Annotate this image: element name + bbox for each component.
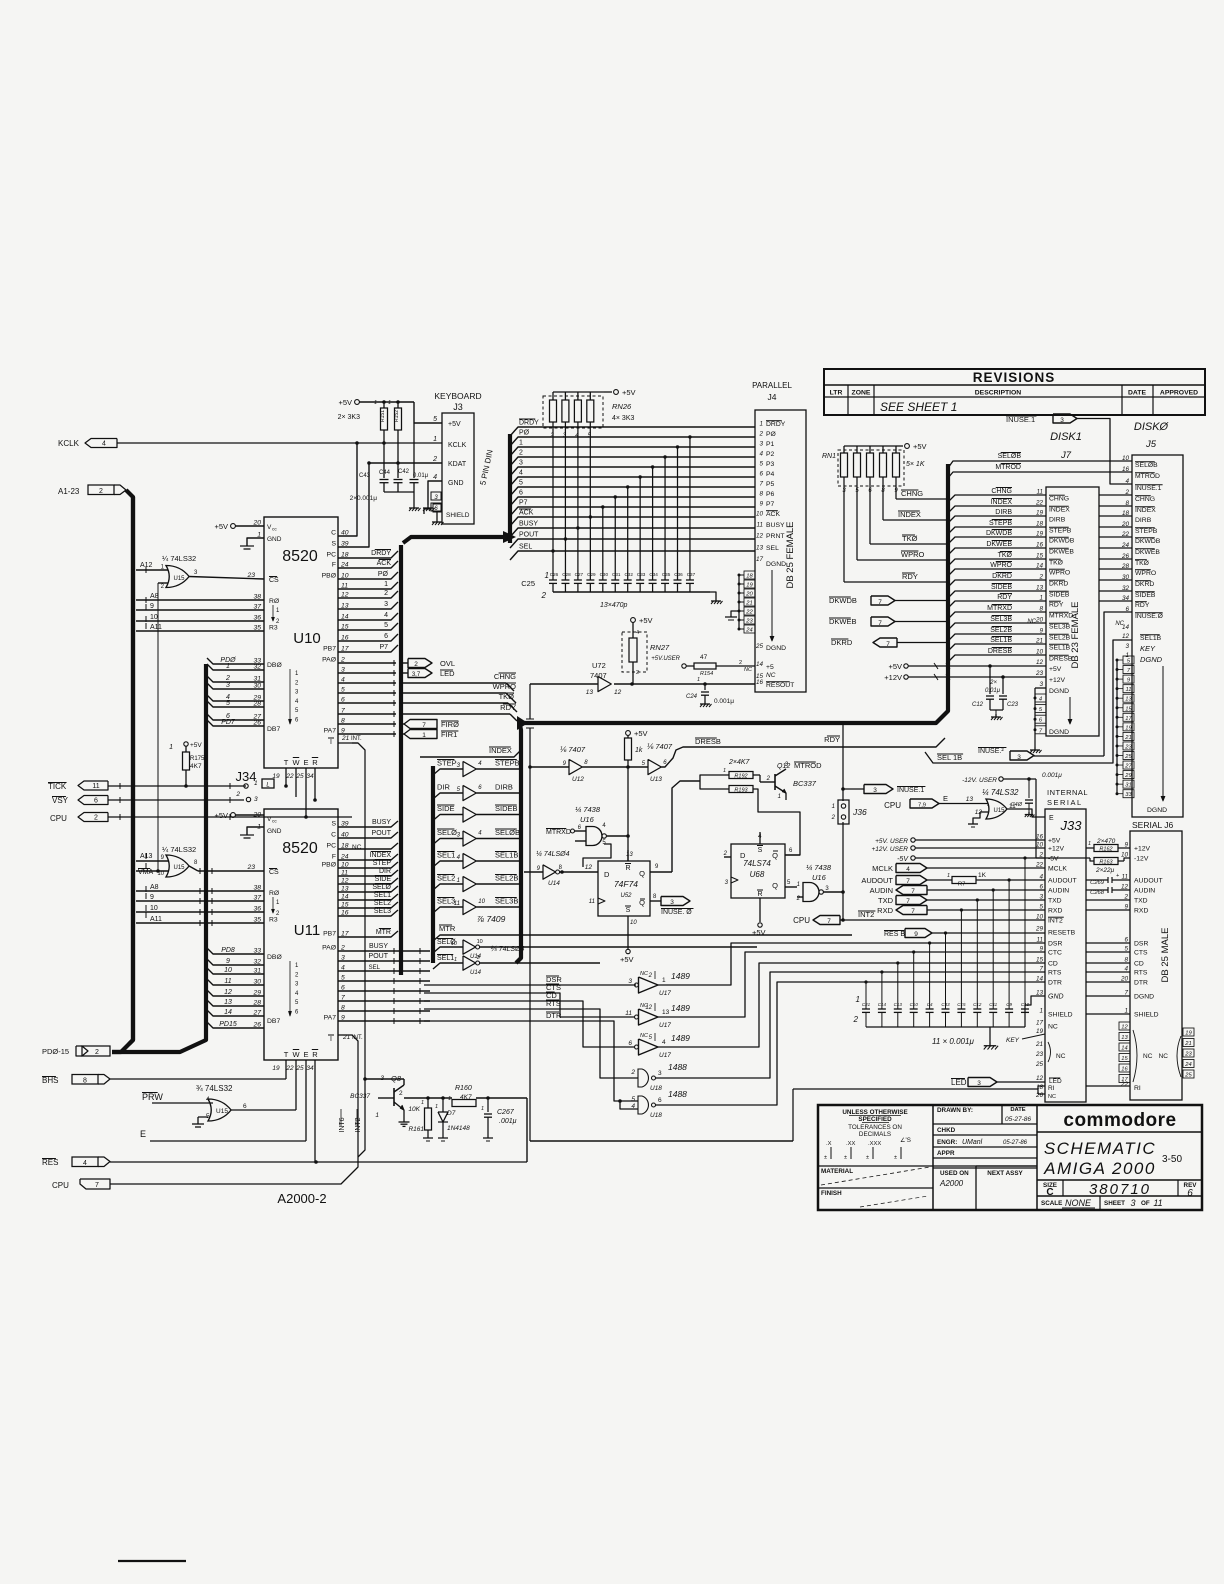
svg-text:STEP: STEP	[373, 860, 392, 867]
svg-text:10: 10	[157, 871, 164, 877]
svg-text:1k: 1k	[635, 747, 643, 754]
svg-text:A11: A11	[150, 624, 162, 631]
svg-text:Q12: Q12	[777, 763, 790, 770]
svg-text:+5V: +5V	[1049, 666, 1062, 673]
svg-text:11: 11	[224, 978, 231, 985]
svg-text:OF: OF	[1141, 1200, 1150, 1207]
svg-text:AUDIN: AUDIN	[1048, 888, 1069, 895]
svg-text:U72: U72	[592, 661, 606, 670]
node PD0-15 tag	[42, 1046, 110, 1056]
svg-text:DKWDB: DKWDB	[1135, 538, 1161, 545]
svg-text:R3: R3	[269, 917, 278, 924]
svg-text:RTS: RTS	[1048, 970, 1062, 977]
svg-text:SIDEB: SIDEB	[991, 584, 1012, 591]
svg-text:1: 1	[856, 995, 860, 1004]
svg-text:1: 1	[545, 571, 549, 580]
bus thick buffer collector	[516, 725, 521, 963]
svg-text:3: 3	[254, 796, 258, 803]
node VSY tag	[52, 796, 108, 806]
svg-text:J33: J33	[1060, 818, 1083, 833]
svg-text:PRW: PRW	[142, 1092, 163, 1102]
svg-text:11: 11	[1153, 1198, 1162, 1208]
svg-text:22: 22	[1035, 500, 1044, 507]
svg-text:2: 2	[95, 1049, 99, 1056]
svg-text:10: 10	[478, 899, 485, 905]
gate U14 74LS04 inverter	[524, 851, 598, 887]
svg-text:NC: NC	[1027, 619, 1036, 625]
wire TK0 row	[400, 692, 517, 712]
node TICK tag	[48, 781, 108, 791]
svg-text:RN26: RN26	[612, 402, 632, 411]
svg-text:PA7: PA7	[324, 1015, 337, 1022]
capacitor bank C26-C37	[521, 435, 722, 609]
J7 disk rows from bus	[948, 488, 1046, 663]
svg-text:2×22μ: 2×22μ	[1095, 867, 1115, 874]
svg-text:RN1: RN1	[822, 453, 836, 460]
svg-text:15: 15	[1036, 957, 1044, 964]
flip-flop 74F74 U52	[589, 775, 705, 964]
svg-text:+5V: +5V	[214, 811, 228, 820]
svg-text:P7: P7	[379, 644, 388, 651]
svg-text:INUSE.²: INUSE.²	[978, 748, 1004, 755]
svg-text:FINISH: FINISH	[821, 1190, 842, 1197]
wire RES long	[110, 1161, 527, 1163]
svg-text:34: 34	[306, 773, 314, 780]
gate U15 74LS32 A12	[136, 554, 264, 871]
svg-text:R193: R193	[734, 788, 748, 794]
svg-text:J7: J7	[1060, 450, 1072, 461]
svg-text:INDEX: INDEX	[1049, 507, 1070, 514]
capacitors C43 C44 C42	[350, 423, 429, 511]
svg-text:5: 5	[631, 1096, 635, 1103]
svg-text:2: 2	[541, 591, 547, 600]
svg-text:C25: C25	[521, 579, 535, 588]
svg-text:6: 6	[759, 471, 763, 478]
svg-text:CTS: CTS	[1134, 950, 1148, 957]
svg-text:3-50: 3-50	[1162, 1154, 1182, 1165]
svg-text:VSY: VSY	[52, 796, 69, 805]
svg-text:6: 6	[1187, 1188, 1193, 1199]
svg-text:R152: R152	[394, 410, 400, 422]
wire INT6 vertical	[352, 743, 365, 1157]
svg-text:R7: R7	[958, 882, 965, 888]
svg-text:D7: D7	[447, 1110, 456, 1117]
svg-text:1: 1	[226, 663, 230, 670]
tick marks on address rows	[145, 567, 147, 918]
svg-text:10: 10	[224, 967, 232, 974]
svg-text:SEL1: SEL1	[374, 892, 391, 899]
svg-text:U18: U18	[650, 1112, 662, 1119]
svg-text:SELØB: SELØB	[1135, 462, 1158, 469]
J7 power pins	[884, 662, 1046, 682]
svg-text:SEE SHEET 1: SEE SHEET 1	[880, 400, 957, 414]
svg-text:7: 7	[878, 599, 882, 606]
node RXD tag	[877, 906, 1045, 916]
svg-text:U17: U17	[659, 1022, 671, 1029]
svg-text:TXD: TXD	[1134, 898, 1148, 905]
svg-text:R162: R162	[1099, 847, 1112, 853]
svg-text:TICK: TICK	[48, 782, 67, 791]
svg-text:OVL: OVL	[440, 659, 455, 668]
svg-text:INUSE.1: INUSE.1	[1135, 485, 1162, 492]
svg-text:C10: C10	[910, 1002, 919, 1007]
connector J34	[235, 769, 274, 803]
svg-text:MTROD: MTROD	[995, 464, 1021, 471]
svg-text:P3: P3	[766, 461, 775, 468]
svg-text:1: 1	[448, 1096, 451, 1102]
svg-text:C9: C9	[1006, 1002, 1012, 1007]
svg-text:C36: C36	[674, 572, 683, 577]
svg-text:4: 4	[636, 630, 639, 636]
svg-text:1: 1	[169, 744, 173, 751]
svg-text:1: 1	[388, 400, 391, 406]
svg-text:+5V: +5V	[190, 742, 202, 749]
svg-text:13: 13	[966, 796, 974, 803]
svg-text:1: 1	[384, 581, 388, 588]
svg-text:10: 10	[451, 941, 458, 947]
svg-text:6: 6	[94, 798, 98, 805]
svg-text:PB7: PB7	[323, 646, 336, 653]
svg-text:U15: U15	[173, 865, 185, 871]
svg-text:U16: U16	[580, 815, 595, 824]
svg-text:W: W	[292, 758, 300, 767]
svg-text:NC: NC	[1056, 1053, 1066, 1060]
wires J33-J6 handshake	[1086, 943, 1130, 1014]
svg-text:NC: NC	[352, 844, 362, 851]
svg-text:INDEX: INDEX	[1135, 507, 1156, 514]
svg-text:SERIAL: SERIAL	[1047, 798, 1083, 807]
svg-text:29: 29	[1124, 773, 1132, 779]
IC U10 8520	[264, 517, 338, 780]
wire BHS	[110, 1078, 286, 1080]
svg-text:2: 2	[432, 456, 437, 463]
svg-text:KEY: KEY	[1140, 644, 1156, 653]
svg-text:1: 1	[759, 421, 763, 428]
svg-text:SEL1B: SEL1B	[1140, 635, 1162, 642]
svg-text:DKRD: DKRD	[992, 573, 1012, 580]
svg-text:19: 19	[1036, 1028, 1044, 1035]
svg-text:⅞ 7409: ⅞ 7409	[477, 914, 506, 924]
resistor R161 10K	[408, 1096, 433, 1141]
svg-text:I: I	[330, 739, 332, 746]
svg-text:0.01μ: 0.01μ	[413, 473, 429, 479]
svg-text:INT6: INT6	[339, 1117, 346, 1132]
svg-text:DATE: DATE	[1128, 390, 1146, 397]
gate U16 7438 MTRXD	[540, 767, 630, 872]
wire RI route	[793, 1086, 1045, 1094]
svg-text:7: 7	[422, 722, 426, 729]
svg-text:A1-23: A1-23	[58, 487, 80, 496]
svg-text:U10: U10	[293, 630, 321, 647]
svg-text:21: 21	[1035, 1041, 1043, 1048]
svg-text:23: 23	[1124, 744, 1132, 750]
svg-text:DRDY: DRDY	[766, 421, 786, 428]
svg-text:12: 12	[1036, 1075, 1044, 1082]
svg-text:CPU: CPU	[884, 801, 901, 810]
svg-text:C269: C269	[1090, 880, 1105, 886]
bus A1-13 thick	[112, 490, 133, 1052]
svg-text:C11: C11	[989, 1002, 997, 1007]
node DKWDB tag	[829, 596, 895, 606]
svg-text:F: F	[332, 562, 336, 569]
svg-text:3: 3	[658, 1070, 662, 1077]
svg-text:2: 2	[853, 1015, 859, 1024]
svg-text:12: 12	[1121, 1025, 1128, 1031]
svg-text:J3: J3	[453, 402, 463, 412]
svg-text:0.001μ: 0.001μ	[714, 698, 734, 705]
svg-text:1: 1	[778, 794, 781, 800]
svg-text:ACK: ACK	[519, 510, 534, 517]
svg-text:R3: R3	[269, 625, 278, 632]
svg-text:DKWDB: DKWDB	[986, 530, 1012, 537]
wires tags to bus	[895, 601, 948, 643]
svg-text:WPRO: WPRO	[1135, 570, 1156, 577]
wire KDAT	[369, 462, 442, 464]
svg-text:RI: RI	[1134, 1085, 1141, 1092]
svg-text:DISKØ: DISKØ	[1134, 421, 1170, 433]
svg-text:SHIELD: SHIELD	[1048, 1012, 1073, 1019]
svg-text:∠'S: ∠'S	[900, 1137, 911, 1144]
svg-text:GND: GND	[448, 480, 464, 487]
svg-text:U14: U14	[548, 880, 560, 887]
svg-text:9: 9	[150, 894, 154, 901]
svg-text:7: 7	[827, 918, 831, 925]
svg-text:DRAWN BY:: DRAWN BY:	[937, 1107, 973, 1114]
svg-text:P2: P2	[766, 451, 775, 458]
connector J6 serial box	[1120, 820, 1182, 1100]
svg-text:3: 3	[1017, 754, 1021, 761]
J6 NC pin boxes right	[1159, 1028, 1194, 1079]
svg-text:1488: 1488	[668, 1089, 687, 1099]
svg-text:24: 24	[1184, 1062, 1191, 1068]
svg-text:12: 12	[1122, 633, 1130, 640]
svg-text:1489: 1489	[671, 971, 690, 981]
svg-text:R: R	[312, 758, 318, 767]
svg-text:6: 6	[658, 1097, 662, 1104]
svg-text:3: 3	[519, 460, 523, 467]
svg-text:10K: 10K	[408, 1106, 420, 1113]
svg-text:13×470p: 13×470p	[600, 602, 628, 609]
svg-text:ACK: ACK	[377, 560, 392, 567]
svg-text:C28: C28	[562, 572, 571, 577]
gate 1489 U17 row 1047	[628, 1033, 690, 1059]
capacitor C40	[1011, 772, 1063, 817]
svg-text:PB7: PB7	[323, 931, 336, 938]
svg-text:1: 1	[797, 882, 800, 888]
gate 1489 U17 row 985	[628, 971, 690, 997]
svg-text:C13: C13	[894, 1002, 903, 1007]
svg-text:R175: R175	[190, 756, 205, 762]
flip-flop 74LS74 U68	[723, 832, 800, 937]
svg-text:C15: C15	[957, 1002, 966, 1007]
svg-text:23: 23	[1035, 1051, 1044, 1058]
svg-text:TKØ: TKØ	[1135, 560, 1150, 567]
svg-text:4: 4	[384, 612, 388, 619]
svg-text:NC: NC	[766, 672, 776, 679]
svg-text:SIDEB: SIDEB	[1049, 592, 1070, 599]
svg-text:RXD: RXD	[877, 906, 893, 915]
svg-text:DTR: DTR	[1048, 980, 1062, 987]
svg-text:+5V: +5V	[620, 955, 634, 964]
svg-text:11: 11	[625, 1010, 632, 1017]
svg-text:3: 3	[226, 682, 230, 689]
svg-text:4: 4	[102, 441, 106, 448]
svg-text:10: 10	[1036, 649, 1044, 656]
svg-text:⅙ 7407: ⅙ 7407	[559, 745, 586, 754]
svg-text:KCLK: KCLK	[58, 439, 80, 448]
SEL0B MTROD rows to J5	[948, 453, 1132, 479]
svg-text:DIR: DIR	[379, 868, 391, 875]
svg-text:+5V: +5V	[1048, 838, 1061, 845]
svg-text:⅙ 7407: ⅙ 7407	[646, 742, 673, 751]
svg-text:7: 7	[911, 908, 915, 915]
svg-text:DB7: DB7	[267, 726, 280, 733]
wire WPRO row	[400, 682, 516, 703]
svg-text:+5: +5	[766, 664, 774, 671]
svg-text:DECIMALS: DECIMALS	[859, 1131, 891, 1138]
svg-text:NC: NC	[1048, 1094, 1056, 1100]
svg-text:3: 3	[977, 1080, 981, 1087]
svg-text:P6: P6	[766, 491, 775, 498]
wire VSY to J34	[244, 799, 315, 801]
svg-text:PC: PC	[327, 552, 337, 559]
svg-text:DESCRIPTION: DESCRIPTION	[975, 390, 1022, 397]
svg-text:SEL3B: SEL3B	[1049, 624, 1071, 631]
svg-text:DB 25 MALE: DB 25 MALE	[1160, 928, 1171, 983]
svg-text:UManl: UManl	[962, 1139, 983, 1146]
svg-text:DGND: DGND	[766, 645, 786, 652]
svg-text:cc: cc	[272, 528, 277, 533]
wire U10 C pin to KCLK	[338, 443, 357, 536]
svg-text:7,9: 7,9	[918, 803, 926, 809]
svg-text:25: 25	[1124, 754, 1132, 760]
J33 user power circles	[871, 838, 1045, 863]
wire U68 D input	[590, 857, 724, 880]
U11 GND lead	[240, 827, 264, 838]
svg-text:1: 1	[433, 436, 437, 443]
svg-text:25: 25	[295, 773, 304, 780]
svg-text:R151: R151	[380, 410, 386, 422]
resistor network RN26	[543, 388, 636, 551]
connector J36	[831, 800, 867, 824]
gate U16 7438 second	[790, 863, 843, 905]
svg-text:5: 5	[226, 700, 230, 707]
revisions table	[824, 369, 1205, 415]
buffer U13 7407	[642, 738, 945, 783]
svg-text:U18: U18	[650, 1085, 662, 1092]
svg-text:C268: C268	[1090, 890, 1105, 896]
svg-text:7: 7	[759, 481, 763, 488]
svg-text:INDEX: INDEX	[370, 852, 392, 859]
svg-text:A2000: A2000	[939, 1179, 964, 1188]
svg-text:E: E	[303, 1050, 308, 1059]
svg-text:¼ 74LS32: ¼ 74LS32	[982, 788, 1019, 797]
svg-text:9: 9	[1039, 628, 1043, 635]
svg-text:RØ: RØ	[269, 890, 280, 897]
svg-text:15: 15	[1036, 553, 1044, 560]
svg-text:MTRXD: MTRXD	[987, 605, 1012, 612]
svg-text:±: ±	[866, 1155, 869, 1161]
svg-text:DIRB: DIRB	[995, 509, 1012, 516]
svg-text:5: 5	[433, 416, 437, 423]
svg-text:CHNG: CHNG	[1049, 496, 1069, 503]
U11 TWER pin stubs	[286, 1060, 315, 1162]
svg-text:C21: C21	[862, 1002, 871, 1007]
svg-text:U11: U11	[294, 922, 320, 939]
svg-text:RI: RI	[1048, 1085, 1055, 1092]
svg-text:R: R	[312, 1050, 318, 1059]
svg-text:NEXT ASSY: NEXT ASSY	[987, 1170, 1023, 1177]
svg-text:19: 19	[746, 583, 753, 589]
J7 to J5 continuation rows	[1099, 495, 1132, 601]
svg-text:13: 13	[756, 545, 764, 552]
svg-text:I: I	[330, 1036, 332, 1043]
svg-text:CHNG: CHNG	[991, 488, 1012, 495]
bus junction disk	[517, 716, 528, 730]
wire J33 GND hook	[1025, 996, 1045, 1027]
svg-text:DIRB: DIRB	[495, 783, 513, 792]
J3 shield ground	[424, 504, 444, 525]
wire -12V user to R163	[1036, 859, 1086, 861]
svg-text:+5V. USER: +5V. USER	[875, 838, 908, 845]
svg-text:.XXX: .XXX	[868, 1141, 881, 1147]
svg-text:C33: C33	[941, 1002, 950, 1007]
svg-text:+5V: +5V	[622, 388, 636, 397]
svg-text:C29: C29	[587, 572, 596, 577]
resistor R160 4K7	[378, 1085, 476, 1107]
buffer U12 7407	[528, 745, 648, 783]
svg-text:PØ: PØ	[378, 571, 389, 578]
svg-text:+5V: +5V	[634, 729, 648, 738]
svg-text:U52: U52	[620, 893, 632, 899]
svg-text:3: 3	[1060, 417, 1064, 424]
svg-text:SHIELD: SHIELD	[446, 512, 470, 519]
svg-text:C: C	[331, 832, 336, 839]
wire RDY vertical	[824, 723, 845, 922]
wire J3 +5V feed	[338, 398, 442, 423]
svg-text:¼ 74LSØ4: ¼ 74LSØ4	[536, 851, 570, 858]
svg-text:18: 18	[1036, 521, 1044, 528]
svg-text:1: 1	[422, 732, 426, 739]
wire MTR row	[433, 924, 852, 941]
svg-text:±: ±	[824, 1155, 827, 1161]
svg-text:.001μ: .001μ	[499, 1118, 517, 1125]
svg-text:17: 17	[1125, 716, 1132, 722]
svg-text:PD15: PD15	[219, 1021, 237, 1028]
svg-text:10: 10	[477, 939, 483, 945]
svg-text:20: 20	[1121, 521, 1130, 528]
svg-text:8520: 8520	[282, 840, 318, 857]
svg-text:E: E	[943, 794, 948, 803]
capacitor bank J33 11x	[853, 856, 1045, 1049]
svg-text:RES: RES	[42, 1158, 58, 1167]
svg-text:SEL3B: SEL3B	[990, 616, 1012, 623]
svg-text:C33: C33	[637, 572, 646, 577]
svg-text:10: 10	[630, 920, 637, 926]
svg-text:13: 13	[1121, 1035, 1128, 1041]
svg-text:DRDY: DRDY	[519, 420, 539, 427]
svg-text:R163: R163	[1099, 860, 1113, 866]
svg-text:MTROD: MTROD	[1135, 473, 1160, 480]
scan mark bottom	[118, 1560, 186, 1562]
svg-text:SEL1B: SEL1B	[1049, 645, 1071, 652]
bus U10 peripheral thick vertical	[399, 545, 403, 975]
svg-text:8: 8	[1125, 500, 1129, 507]
svg-text:Q: Q	[639, 869, 645, 878]
svg-text:13: 13	[662, 1009, 670, 1016]
U11 left pin numbers	[252, 812, 261, 1029]
svg-text:26: 26	[1121, 553, 1130, 560]
